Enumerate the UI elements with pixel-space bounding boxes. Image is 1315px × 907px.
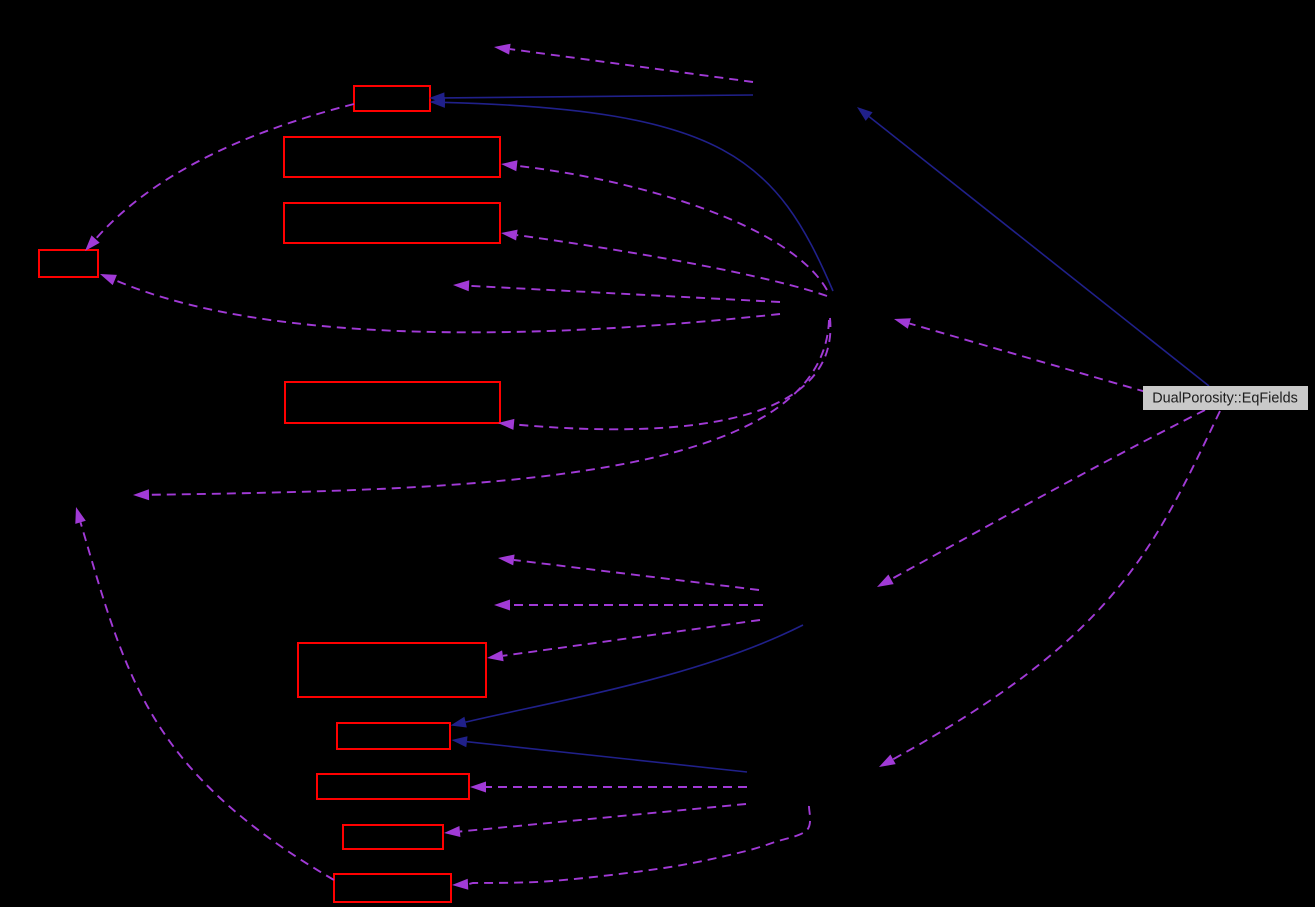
node DualPorosity::EqFields xyxy=(1143,386,1308,410)
node-F xyxy=(298,643,486,697)
node-C xyxy=(284,203,500,243)
edge J to far-left-lower-node xyxy=(75,507,334,880)
edge H5 to J xyxy=(452,806,810,890)
edge H2 to far-left-node xyxy=(133,320,829,500)
edge grey to H5 xyxy=(879,411,1220,767)
edge H2 to D xyxy=(100,274,780,332)
edge H4 to F xyxy=(487,620,760,661)
edge grey to H1 xyxy=(857,107,1209,386)
edge grey to H4 xyxy=(877,410,1205,587)
edge A to D xyxy=(85,104,354,251)
edge H5 to I xyxy=(444,804,746,837)
node-G xyxy=(337,723,450,749)
node-D xyxy=(39,250,98,277)
edge H4 to X3-node xyxy=(494,600,763,611)
svg-text:DualPorosity::EqFields: DualPorosity::EqFields xyxy=(1152,391,1298,407)
edge grey to H2 xyxy=(894,318,1146,392)
node-H xyxy=(317,774,469,799)
edge H5 to H xyxy=(470,782,747,793)
edge H4 to G xyxy=(451,625,804,728)
edge H2 to X1-node xyxy=(453,280,780,302)
edge H4 to X2-node xyxy=(498,555,759,591)
node-J xyxy=(334,874,451,902)
node-B xyxy=(284,137,500,177)
edge H5 to G xyxy=(452,736,748,772)
node-I xyxy=(343,825,443,849)
edge H2 to B xyxy=(501,160,827,290)
node-E xyxy=(285,382,500,423)
edge H1 to TL-node xyxy=(494,44,753,82)
edge H2 to A xyxy=(430,97,834,291)
edge H2 to C xyxy=(501,230,827,296)
edge H2 to E xyxy=(498,318,830,430)
node-A xyxy=(354,86,430,111)
edge H1 to A xyxy=(429,92,753,103)
